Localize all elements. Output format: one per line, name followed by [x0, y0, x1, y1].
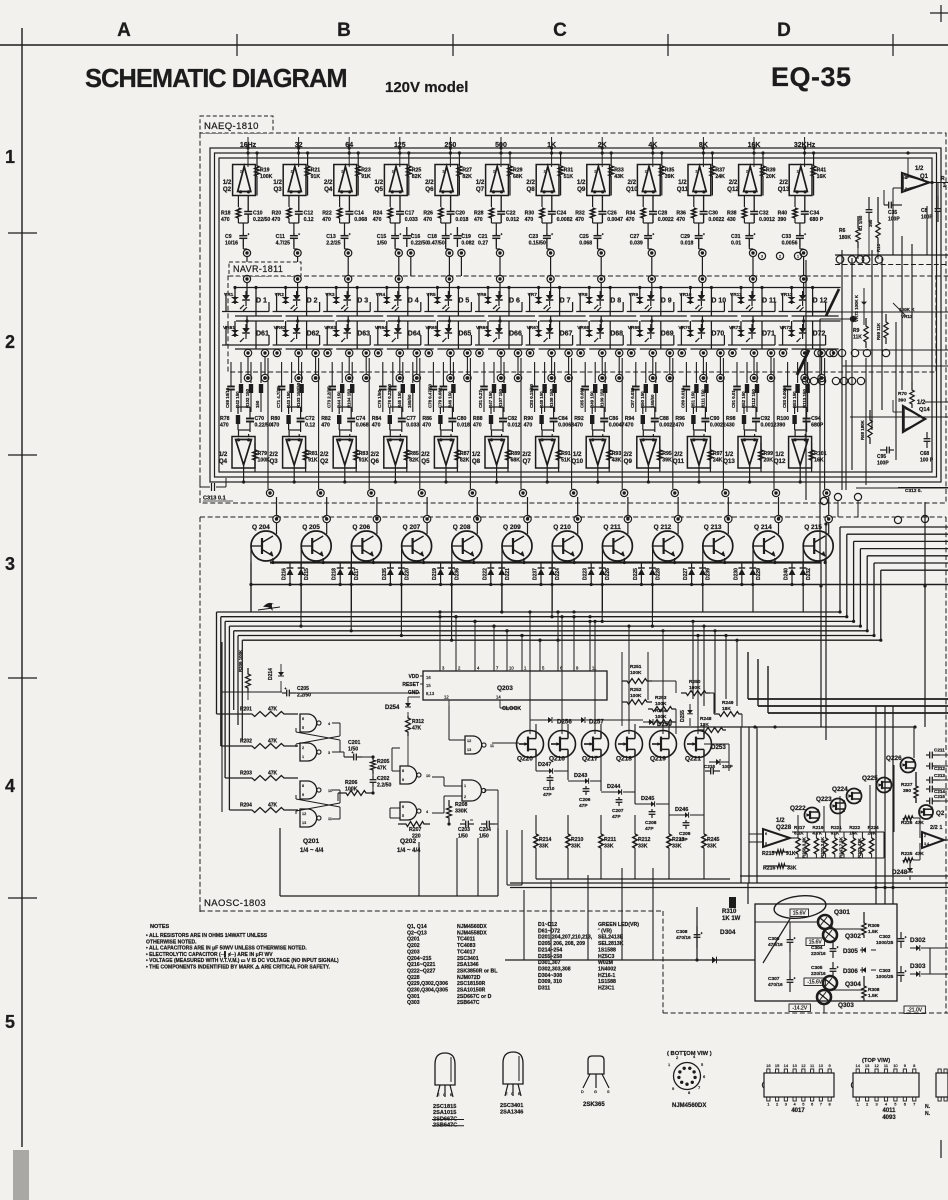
wire right section verticals	[841, 250, 843, 490]
svg-text:470: 470	[675, 423, 684, 429]
svg-text:2SA1015: 2SA1015	[433, 1110, 456, 1116]
terminal pin VR row 32	[294, 275, 301, 282]
wire lattice row2 16K	[742, 320, 790, 322]
svg-text:C89 0.018: C89 0.018	[681, 387, 686, 408]
svg-text:Q 211: Q 211	[603, 524, 621, 531]
svg-text:91K: 91K	[361, 174, 371, 180]
wire 16Hz mid	[238, 222, 248, 224]
wire channel long vertical	[318, 358, 320, 489]
svg-text:5: 5	[765, 842, 767, 846]
wire 64 mid	[340, 222, 350, 224]
wire channel 500 pair top	[491, 406, 503, 408]
svg-text:R203: R203	[240, 771, 252, 777]
component R42 channel 16Hz	[240, 362, 242, 383]
wire logic bottom rail	[280, 895, 498, 897]
annotation pen slash	[826, 289, 839, 316]
svg-text:Q203: Q203	[497, 685, 513, 692]
svg-text:1.5K: 1.5K	[868, 929, 879, 935]
terminal pins dense row 64	[346, 374, 353, 381]
resistor R101	[809, 450, 813, 460]
op-amp Q3	[283, 437, 306, 469]
svg-text:20K: 20K	[764, 458, 774, 464]
resistor R212	[633, 834, 637, 848]
component R44 channel 64	[341, 362, 343, 383]
resistor R215	[772, 850, 788, 854]
svg-text:91K: 91K	[831, 831, 840, 836]
svg-text:A: A	[117, 20, 131, 41]
svg-text:C95: C95	[877, 454, 886, 460]
wire Q214 emitter	[774, 558, 776, 563]
svg-text:220/16: 220/16	[811, 971, 826, 977]
svg-text:HZ3C1: HZ3C1	[598, 986, 615, 992]
resistor R91	[556, 450, 560, 460]
terminal pins lower row 125	[396, 349, 403, 356]
wire feeds into power box	[747, 883, 749, 904]
wire 500 mid	[491, 222, 501, 224]
svg-text:2/2: 2/2	[729, 179, 738, 186]
wire Q210 collector	[577, 523, 579, 534]
svg-text:Q 205: Q 205	[302, 524, 320, 531]
terminal pin bottom 500	[519, 489, 526, 496]
svg-text:R86: R86	[422, 416, 432, 422]
wire 33K bottom rail	[536, 878, 730, 880]
op-amp Q9	[587, 165, 610, 196]
terminal pins dense row 16Hz	[244, 374, 251, 381]
svg-text:47P: 47P	[579, 803, 588, 809]
svg-text:R308: R308	[868, 987, 880, 993]
svg-text:D302,303,308: D302,303,308	[538, 966, 571, 972]
NAND gate Q202d output	[465, 736, 482, 754]
component R49 channel 2K	[594, 362, 596, 383]
svg-text:47K: 47K	[268, 739, 278, 745]
svg-text:C308: C308	[676, 929, 688, 935]
svg-text:C77: C77	[406, 416, 416, 422]
terminal pins extended row2 right	[814, 349, 821, 356]
svg-text:10: 10	[509, 666, 514, 671]
svg-text:Q2: Q2	[936, 810, 945, 817]
resistor R245	[702, 834, 706, 848]
svg-text:1S1588: 1S1588	[598, 979, 616, 985]
resistor R93	[607, 450, 611, 460]
svg-text:2/2: 2/2	[269, 451, 278, 458]
svg-text:R227: R227	[901, 782, 913, 788]
svg-text:Q225: Q225	[862, 775, 878, 782]
svg-text:D63: D63	[357, 331, 370, 338]
svg-text:Q219: Q219	[650, 756, 666, 763]
svg-text:R211: R211	[604, 837, 616, 843]
svg-text:D220: D220	[404, 568, 410, 580]
svg-text:R87: R87	[460, 451, 470, 457]
svg-text:1/2: 1/2	[223, 179, 232, 186]
wire Q212 collector	[677, 523, 679, 534]
svg-text:2: 2	[905, 187, 907, 191]
svg-text:Q2: Q2	[223, 186, 232, 193]
resistor R36	[693, 196, 695, 208]
capacitor C70	[249, 407, 251, 418]
capacitor C29	[695, 235, 703, 237]
svg-text:2: 2	[943, 183, 946, 189]
svg-text:C306: C306	[768, 936, 780, 942]
wire lattice row2 32	[287, 320, 335, 322]
svg-text:R210: R210	[571, 837, 584, 843]
wire channel long vertical	[722, 358, 724, 489]
svg-text:470: 470	[676, 217, 685, 223]
border ruler top line	[0, 44, 948, 46]
svg-text:68K: 68K	[511, 458, 521, 464]
svg-text:33K: 33K	[638, 844, 648, 850]
svg-text:47P: 47P	[612, 814, 621, 820]
LED D69	[647, 328, 655, 333]
wire channel long vertical	[469, 358, 471, 489]
svg-text:C14: C14	[354, 211, 364, 217]
capacitor C307	[787, 979, 794, 981]
resistor R25	[407, 166, 411, 176]
svg-text:D65: D65	[458, 331, 471, 338]
svg-text:C302: C302	[879, 934, 891, 940]
svg-text:150: 150	[255, 400, 260, 408]
transistor Q219	[650, 731, 677, 758]
LED D70	[698, 328, 706, 333]
svg-text:Q222: Q222	[790, 805, 806, 812]
svg-text:R51 150: R51 150	[691, 391, 696, 408]
svg-text:R112 150: R112 150	[751, 389, 756, 408]
component C76 channel 125	[392, 362, 394, 383]
capacitor C77	[401, 407, 403, 418]
resistor R87	[455, 450, 459, 460]
svg-text:2: 2	[240, 170, 242, 174]
wire Q208 collector	[476, 523, 478, 534]
svg-text:R80: R80	[271, 416, 281, 422]
svg-text:470: 470	[322, 217, 331, 223]
svg-text:1/2: 1/2	[476, 179, 485, 186]
wire channel 8K pair top	[693, 406, 705, 408]
svg-text:R251: R251	[630, 664, 642, 670]
svg-text:B: B	[337, 20, 351, 41]
svg-text:470: 470	[575, 217, 584, 223]
wire channel 64 lower	[339, 429, 351, 431]
svg-text:R249: R249	[722, 700, 734, 706]
svg-text:2/2 1: 2/2 1	[930, 825, 942, 831]
component C93 channel 32KHz	[787, 362, 789, 383]
wire Q213 emitter	[724, 558, 726, 563]
svg-text:R37: R37	[715, 168, 725, 174]
component 150 channel 16Hz	[260, 362, 262, 383]
component C69 channel 16Hz	[230, 362, 232, 383]
wire channel 2K lower	[592, 429, 604, 431]
svg-text:R26: R26	[423, 211, 433, 217]
svg-text:47P: 47P	[543, 792, 552, 798]
svg-text:Q 209: Q 209	[503, 524, 521, 531]
power dashed boundary	[662, 911, 664, 1013]
svg-text:2SB647C: 2SB647C	[457, 1000, 480, 1006]
svg-text:20K: 20K	[766, 174, 776, 180]
capacitor C26	[598, 211, 606, 213]
resistor R82	[338, 407, 340, 414]
wire Q206 collector	[376, 523, 378, 534]
resistor R18	[237, 196, 239, 208]
op-amp Q6	[435, 165, 458, 196]
capacitor C31	[745, 235, 753, 237]
capacitor C68	[924, 438, 931, 440]
capacitor C207	[616, 799, 623, 801]
svg-text:12: 12	[874, 1063, 879, 1068]
wire apex 4K	[647, 465, 649, 482]
svg-text:NJM072D: NJM072D	[457, 975, 481, 981]
dashed partition right	[835, 264, 948, 266]
wire channel long vertical	[571, 358, 573, 489]
wire right section horizontals	[806, 311, 948, 313]
svg-text:R201: R201	[240, 707, 252, 713]
resistor R37	[710, 166, 714, 176]
resistor R22	[339, 196, 341, 208]
svg-text:VDD: VDD	[408, 674, 419, 680]
svg-text:470: 470	[625, 423, 634, 429]
LED D8	[596, 295, 604, 300]
capacitor C11	[290, 235, 298, 237]
resistor R211	[599, 834, 603, 848]
svg-text:C: C	[511, 1092, 514, 1096]
resistor R98	[743, 407, 745, 414]
svg-text:4011: 4011	[882, 1108, 896, 1114]
svg-text:Q217: Q217	[582, 756, 598, 763]
voltage -21.0V	[904, 1006, 925, 1014]
svg-text:C23: C23	[529, 234, 539, 240]
svg-text:0.039: 0.039	[630, 241, 643, 247]
terminal pins lower row 64	[346, 349, 353, 356]
wire Q219 source	[668, 752, 670, 815]
capacitor C13	[341, 235, 349, 237]
svg-text:C210: C210	[543, 786, 555, 792]
terminal pin VR row 4K	[648, 275, 655, 282]
svg-text:R213: R213	[672, 837, 685, 843]
svg-text:0.22/50: 0.22/50	[255, 423, 272, 429]
component C87 channel 4K	[635, 362, 637, 383]
op-amp Q12	[789, 437, 812, 469]
svg-text:91K: 91K	[311, 174, 321, 180]
border left vertical line	[21, 28, 23, 1147]
svg-text:2SC3401: 2SC3401	[457, 956, 479, 962]
svg-text:R219: R219	[812, 825, 823, 830]
svg-text:Q201: Q201	[303, 838, 319, 845]
LED D5	[445, 295, 453, 300]
component R51 channel 8K	[695, 362, 697, 383]
svg-text:D 3: D 3	[357, 298, 368, 305]
wire channel long vertical	[773, 358, 775, 489]
module NAVR-1811 label box	[229, 262, 301, 276]
diode D304 symbol	[712, 957, 717, 964]
svg-text:C: C	[553, 20, 567, 41]
wire Q215 emitter	[824, 558, 826, 563]
svg-text:0.082: 0.082	[461, 241, 474, 247]
package drawing 2SK365	[588, 1056, 604, 1074]
wire Q205 base	[300, 546, 302, 612]
wire diode drop D215	[300, 585, 302, 627]
svg-text:Q6: Q6	[371, 458, 380, 465]
svg-text:1: 1	[464, 784, 466, 788]
wire Q221 drain	[703, 724, 705, 735]
svg-text:C90: C90	[710, 416, 720, 422]
wire apex 1K	[546, 465, 548, 482]
svg-text:3: 3	[484, 789, 486, 793]
capacitor C303	[898, 972, 905, 974]
svg-text:0.012: 0.012	[506, 217, 519, 223]
component C91 channel 16K	[736, 362, 738, 383]
latch cross wiring Q201ab	[332, 722, 340, 724]
svg-text:D 11: D 11	[762, 298, 777, 305]
wire lattice row1 125	[388, 287, 436, 289]
resistor R79	[253, 450, 257, 460]
svg-text:R207: R207	[409, 827, 422, 833]
svg-text:2: 2	[645, 170, 647, 174]
wire lattice row2 8K	[691, 320, 739, 322]
svg-text:C204: C204	[479, 827, 491, 833]
terminal pins dense row 250	[447, 374, 454, 381]
component C79 channel 250	[442, 362, 444, 383]
resistor R23	[356, 166, 360, 176]
wire 16K mid	[744, 222, 754, 224]
svg-text:4093: 4093	[882, 1115, 896, 1121]
LED D63	[343, 328, 351, 333]
svg-text:1000/25: 1000/25	[876, 940, 894, 946]
capacitor C215	[929, 798, 931, 805]
wire apex 2K	[597, 465, 599, 482]
svg-text:C80: C80	[457, 416, 467, 422]
terminal pin bottom 125	[418, 489, 425, 496]
svg-text:1/2: 1/2	[775, 451, 784, 458]
wire lattice row2 4K	[641, 320, 689, 322]
svg-text:6: 6	[765, 832, 767, 836]
svg-text:0.068: 0.068	[354, 217, 367, 223]
wire channel 4K pair top	[643, 406, 655, 408]
wire Q207 collector	[426, 523, 428, 534]
svg-text:D228: D228	[655, 568, 661, 580]
component C81 channel 500	[483, 362, 485, 383]
wire latch1 out	[332, 751, 344, 753]
svg-text:Q13: Q13	[723, 458, 735, 465]
wire Q210 base	[551, 546, 553, 612]
svg-text:Q 206: Q 206	[352, 524, 370, 531]
wire Q220 drain	[535, 724, 537, 735]
svg-text:2: 2	[695, 170, 697, 174]
svg-text:CLOCK: CLOCK	[502, 706, 521, 712]
wire Q218 drain	[634, 724, 636, 735]
svg-text:1/2: 1/2	[374, 179, 383, 186]
svg-text:Q204~215: Q204~215	[407, 956, 431, 962]
svg-text:1/2: 1/2	[573, 451, 582, 458]
svg-text:R91: R91	[561, 451, 571, 457]
bus rail rectangle inner	[219, 158, 932, 472]
svg-text:R209 100K: R209 100K	[238, 649, 243, 672]
op-amp Q11	[688, 165, 711, 196]
svg-text:100K: 100K	[630, 670, 642, 676]
svg-text:R27: R27	[462, 168, 472, 174]
svg-text:91K: 91K	[308, 458, 318, 464]
svg-text:2/2: 2/2	[425, 179, 434, 186]
svg-text:R42 150: R42 150	[235, 391, 240, 408]
svg-text:180K: 180K	[839, 235, 851, 241]
terminal pins dense row 16K	[750, 374, 757, 381]
svg-text:Q229,Q302,Q306: Q229,Q302,Q306	[407, 981, 448, 987]
wire apex 16Hz	[243, 465, 245, 482]
svg-text:C85 0.068: C85 0.068	[579, 387, 584, 408]
capacitor C10	[244, 211, 252, 213]
svg-text:Q224: Q224	[832, 786, 848, 793]
svg-text:33K: 33K	[672, 844, 682, 850]
svg-text:9: 9	[402, 778, 404, 782]
module NAVR-1811 dashed outline	[228, 276, 936, 372]
svg-text:C207: C207	[612, 808, 624, 814]
LED D10	[698, 295, 706, 300]
power bus top	[510, 882, 948, 884]
svg-text:2/2: 2/2	[627, 179, 636, 186]
svg-text:470: 470	[221, 217, 230, 223]
svg-text:2/2: 2/2	[779, 179, 788, 186]
svg-text:2: 2	[493, 170, 495, 174]
resistor R80	[288, 407, 290, 414]
svg-text:470: 470	[271, 423, 280, 429]
svg-text:470: 470	[473, 423, 482, 429]
svg-text:C305: C305	[811, 965, 823, 971]
svg-text:4017: 4017	[791, 1108, 805, 1114]
svg-text:D61~D72: D61~D72	[538, 928, 560, 934]
capacitor C35	[888, 202, 890, 209]
resistor R32	[592, 196, 594, 208]
svg-text:0.0022: 0.0022	[708, 217, 724, 223]
scan smudge bottom left	[13, 1150, 29, 1200]
bus left verticals to logic	[216, 612, 218, 714]
svg-text:13: 13	[467, 748, 471, 752]
terminal pin VR row 64	[345, 275, 352, 282]
svg-text:HZ5C3: HZ5C3	[598, 954, 615, 960]
svg-text:100P: 100P	[722, 764, 733, 769]
component R46 channel 250	[452, 362, 454, 383]
svg-text:470/16: 470/16	[768, 982, 783, 988]
svg-text:2SD667C or D: 2SD667C or D	[457, 994, 492, 1000]
svg-text:470: 470	[372, 423, 381, 429]
NAND gate Q201b	[300, 743, 317, 761]
wire Q226 drain up	[913, 727, 915, 758]
terminal pin 16K	[748, 247, 750, 249]
wire Q220 source	[535, 752, 537, 771]
wire channel long vertical	[368, 358, 370, 489]
NAND gate Q202b	[400, 802, 417, 820]
svg-text:D225: D225	[633, 568, 639, 580]
svg-text:68K: 68K	[513, 174, 523, 180]
bus drops to Q203 pins	[439, 612, 441, 667]
resistor R24	[389, 196, 391, 208]
wire Q207 emitter	[423, 558, 425, 563]
svg-text:D253: D253	[711, 744, 726, 751]
capacitor C313	[200, 486, 210, 488]
svg-text:R10: R10	[876, 243, 881, 252]
svg-text:R24: R24	[373, 211, 383, 217]
wire diode drop D220	[400, 585, 402, 636]
svg-text:Q218: Q218	[616, 756, 632, 763]
svg-text:82K: 82K	[460, 458, 470, 464]
wire Q211 base	[601, 546, 603, 612]
terminal pin 4K	[647, 247, 649, 249]
capacitor C23	[543, 235, 551, 237]
svg-text:100K: 100K	[260, 174, 273, 180]
resistor R309	[862, 912, 866, 938]
wire channel 500 lower	[491, 429, 503, 431]
diode D256	[548, 717, 552, 723]
transistor Q227	[919, 805, 933, 819]
svg-text:R98: R98	[726, 416, 736, 422]
LED D9	[647, 295, 655, 300]
svg-text:Q 212: Q 212	[654, 524, 672, 531]
wire Q205 collector	[326, 523, 328, 534]
